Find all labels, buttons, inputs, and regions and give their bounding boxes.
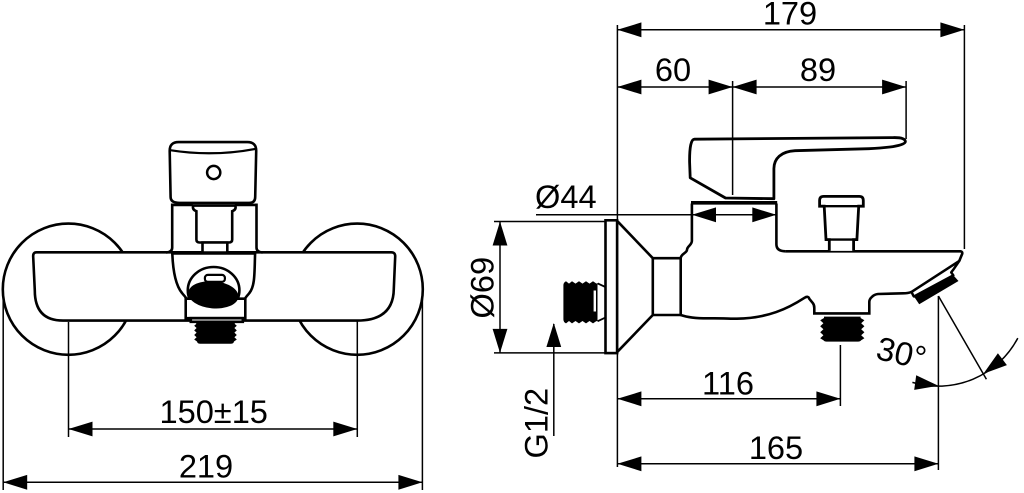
arrow 89 right (882, 80, 906, 95)
cartridge neck (193, 206, 236, 243)
bell cone top slant (617, 221, 652, 258)
wall escutcheon plate (side) (606, 220, 618, 353)
arrow Ø44 right (752, 207, 776, 222)
Ø44 leader and dim line (536, 214, 776, 216)
cartridge cylinder right edge into body top (776, 204, 785, 252)
extension line left pipe center (68, 322, 70, 437)
shower hose outlet (side, black) (820, 317, 864, 342)
svg-text:G1/2: G1/2 (518, 388, 555, 459)
threaded shower outlet (front, black) (194, 323, 237, 344)
arrow Ø44 left (692, 207, 716, 222)
spout dark opening (187, 279, 240, 310)
handle bell left lip (172, 204, 193, 207)
handle bell right side (257, 204, 263, 253)
bell cone bottom slant (617, 315, 652, 352)
30° slanted reference (938, 296, 986, 379)
arrow 116 right (816, 391, 840, 406)
arrow Ø69 bottom (493, 329, 508, 353)
dim line 219 (3, 481, 422, 483)
arrow 30° at slant (983, 353, 1007, 374)
30° vertical reference (937, 296, 939, 470)
arrow 60 left (617, 80, 641, 95)
nipple-to-plate bottom link (598, 318, 606, 322)
svg-text:219: 219 (179, 448, 233, 485)
dim line 89 (733, 86, 907, 88)
G1/2 leader line (553, 324, 555, 436)
svg-text:60: 60 (655, 51, 691, 88)
left escutcheon circle (3, 224, 134, 355)
extension line handle front (60/89) (732, 81, 734, 195)
union neck cylinder (653, 258, 681, 315)
arrow 150 left (69, 422, 93, 437)
arrow 179 left (617, 22, 641, 37)
extension line right pipe center (356, 322, 358, 438)
handle pivot dot (207, 166, 220, 179)
arrow 150 right (333, 422, 357, 437)
svg-text:Ø69: Ø69 (464, 257, 501, 319)
body (front view) (33, 252, 395, 320)
extension line spout tip (179 right) (963, 25, 965, 249)
cartridge escutcheon bold top line (691, 201, 777, 205)
spout opening notch (205, 275, 225, 282)
handle top face curve (170, 149, 256, 153)
svg-text:165: 165 (749, 429, 803, 466)
extension line lever tip (89 right) (905, 81, 907, 139)
dim line 165 (617, 463, 938, 465)
svg-text:179: 179 (763, 0, 817, 32)
arrow Ø69 top (493, 222, 508, 246)
arrow 116 left (617, 391, 641, 406)
cartridge cylinder (Ø44) left edge with S-curve into neck (681, 204, 692, 259)
svg-text:Ø44: Ø44 (535, 178, 597, 215)
arrow 60 right (709, 80, 733, 95)
Ø69 dim line (499, 222, 501, 353)
nipple white slit (594, 291, 596, 312)
arrow 165 right (914, 456, 938, 471)
spout end cap (white band) (912, 261, 960, 297)
dim line 150±15 (69, 428, 358, 430)
30° arc (912, 338, 1017, 386)
arrow G1/2 up (546, 323, 561, 347)
handle bell right lip (235, 204, 257, 207)
svg-text:116: 116 (702, 365, 754, 402)
spout outlet ring (188, 267, 240, 314)
arrow 219 left (3, 475, 27, 490)
spout cowl (front) (172, 253, 255, 299)
extension line 219 left (2, 292, 4, 490)
arrow 179 right (940, 22, 964, 37)
dim line 179 (617, 29, 964, 31)
neck base block (203, 243, 228, 253)
svg-text:150±15: 150±15 (159, 393, 267, 430)
dim line 116 (617, 398, 840, 400)
wall reference extension line (616, 25, 618, 467)
svg-text:89: 89 (800, 51, 836, 88)
right escutcheon circle (292, 224, 423, 355)
spout lower step (191, 318, 243, 322)
arrow 165 left (617, 456, 641, 471)
handle bell left side (166, 204, 172, 253)
nipple-to-plate top link (598, 283, 606, 287)
spout lower block (186, 299, 246, 319)
extension line 219 right (421, 296, 423, 490)
arrow 219 right (398, 475, 422, 490)
lever handle (side view) (690, 138, 906, 199)
Ø69 top extension (494, 221, 605, 223)
diverter knob (side) (820, 196, 864, 251)
arrow 89 left (733, 80, 757, 95)
arrow 30° at vertical (914, 375, 938, 390)
Ø69 bottom extension (494, 352, 605, 354)
G1/2 nipple (side, black) (563, 281, 605, 323)
body top edge (785, 251, 962, 261)
extension line hose outlet center (116 right) (839, 345, 841, 406)
aerator band (black) (914, 275, 959, 304)
dim line 60 (617, 86, 732, 88)
body underside profile (681, 292, 912, 319)
handle (front view) (170, 142, 257, 203)
